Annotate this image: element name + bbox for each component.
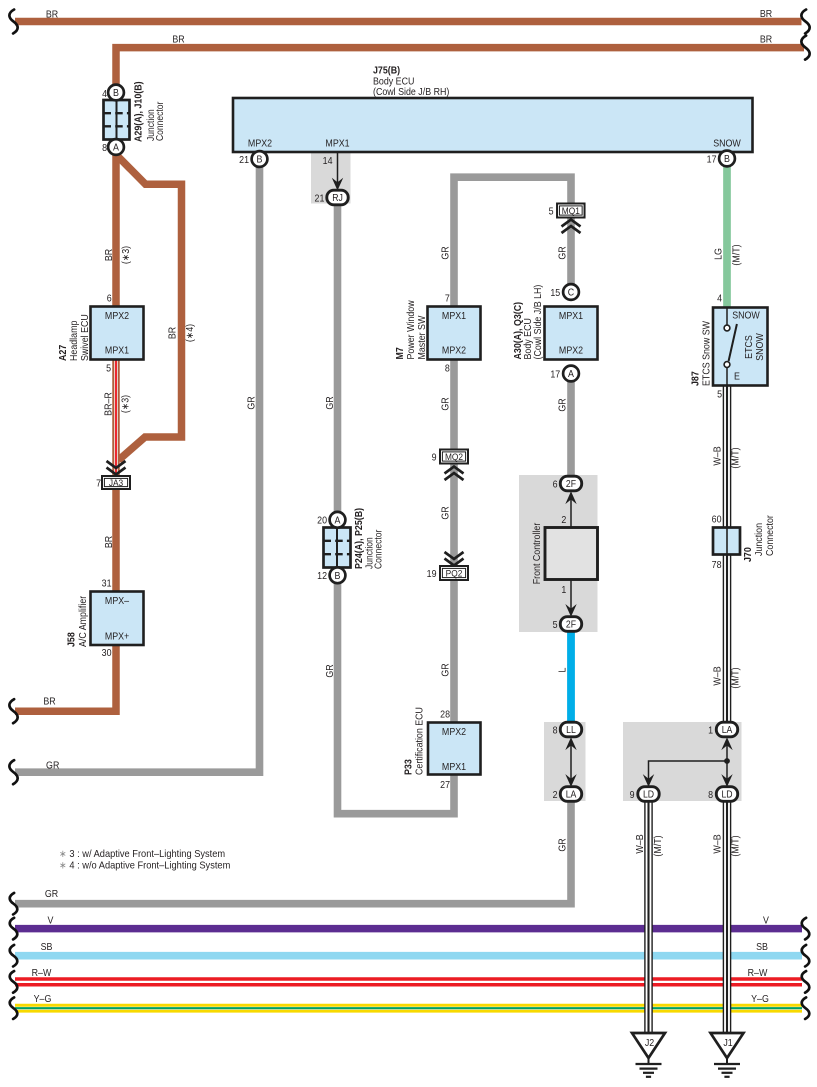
break symbol left of BR bottom <box>9 699 17 723</box>
pin 2F(5) <box>560 617 581 632</box>
thin line J75 pin 14 to RJ with arrow <box>337 152 339 186</box>
svg-text:GR: GR <box>324 664 336 677</box>
switch contact top <box>726 308 728 326</box>
svg-text:MPX–: MPX– <box>105 595 130 607</box>
wire L from Front Controller 2F(5) to LL <box>567 631 575 724</box>
svg-text:30: 30 <box>102 647 112 659</box>
ECU box J75(B) Body ECU <box>233 98 753 152</box>
svg-text:LA: LA <box>566 789 577 800</box>
svg-text:5: 5 <box>717 389 722 401</box>
pin LA(2) <box>560 787 581 802</box>
ECU box M7 Power Window Master SW <box>428 307 481 360</box>
break symbol left of BR bus <box>9 10 17 34</box>
svg-text:MPX2: MPX2 <box>248 138 272 150</box>
svg-text:A: A <box>568 369 574 381</box>
shaded area RJ connector region <box>311 153 351 204</box>
svg-text:4: 4 <box>717 293 723 305</box>
pin A(17) of A30 <box>563 366 579 382</box>
arrow into RJ <box>332 178 343 191</box>
wire BR-R from A27 pin 5 to JA3 <box>112 360 120 477</box>
svg-text:A/C Amplifier: A/C Amplifier <box>77 595 89 647</box>
svg-text:17: 17 <box>707 154 717 166</box>
svg-text:J2: J2 <box>645 1037 654 1049</box>
svg-text:Certification ECU: Certification ECU <box>414 707 426 775</box>
wire W-B from J87 pin 5 to J70 pin 60 <box>723 386 732 528</box>
ECU box J87 ETCS Snow SW <box>713 308 768 386</box>
relay block MQ1 <box>557 204 585 218</box>
thin line LL to LA <box>570 743 572 781</box>
svg-text:Connector: Connector <box>154 102 165 141</box>
junction connector A29(A) J10(B) grid <box>104 100 130 140</box>
svg-text:Swivel ECU: Swivel ECU <box>79 314 91 361</box>
svg-text:W–B: W–B <box>634 834 646 853</box>
svg-text:60: 60 <box>712 514 722 526</box>
wire LG from J75 SNOW pin 17 to J87 pin 4 <box>723 166 731 308</box>
pin LD(9) <box>638 787 659 802</box>
svg-text:ETCS Snow SW: ETCS Snow SW <box>701 321 713 386</box>
svg-text:BR: BR <box>103 536 115 548</box>
break V right <box>802 918 810 940</box>
svg-text:LD: LD <box>643 789 654 800</box>
svg-text:GR: GR <box>557 398 569 411</box>
break symbol right of BR feed <box>801 36 809 60</box>
svg-text:1: 1 <box>708 725 713 737</box>
svg-text:Connector: Connector <box>373 530 384 569</box>
relay block MQ2 <box>440 450 468 464</box>
wire GR loop M7 pin 7 to MQ1 and A30 pin C <box>454 177 571 306</box>
svg-text:L: L <box>557 668 569 673</box>
pin B(4) of A29 <box>108 85 124 101</box>
ground J1 <box>711 1033 744 1058</box>
pin B(12) of P24 <box>330 567 346 583</box>
svg-text:R–W: R–W <box>32 967 52 979</box>
svg-text:BR–R: BR–R <box>103 392 115 416</box>
wire BR from J58 pin 30 to left break <box>15 645 116 712</box>
svg-text:J1: J1 <box>723 1037 732 1049</box>
svg-text:B: B <box>724 154 730 166</box>
svg-text:4: 4 <box>102 88 108 100</box>
svg-text:Y–G: Y–G <box>34 993 52 1005</box>
thin line node to LD(8) <box>726 761 728 781</box>
svg-text:(∗3): (∗3) <box>120 246 132 264</box>
svg-text:B: B <box>257 154 263 166</box>
arrow down into LA(2) <box>565 774 576 787</box>
wire W-B from LD(8) to ground J1 <box>723 801 732 1034</box>
pin LL(8) <box>560 722 581 737</box>
svg-text:A27: A27 <box>57 345 69 361</box>
svg-text:(∗3): (∗3) <box>120 395 132 413</box>
junction node dot <box>724 758 730 764</box>
break SB left <box>10 945 18 967</box>
break symbol right of BR bus <box>801 10 809 34</box>
wire GR from RJ to P24 pin A <box>334 205 342 515</box>
svg-text:2F: 2F <box>566 478 576 489</box>
svg-text:MPX2: MPX2 <box>105 310 129 322</box>
wire GR from LA(2) to bottom GR bus and left break <box>15 801 571 904</box>
svg-text:27: 27 <box>440 779 450 791</box>
pin A(20) of P24 <box>330 512 346 528</box>
svg-text:GR: GR <box>440 663 452 676</box>
wire GR from J75 pin B21 to left break <box>15 167 260 773</box>
svg-text:SB: SB <box>756 941 768 953</box>
svg-text:14: 14 <box>323 155 333 167</box>
switch contact bottom <box>724 362 730 368</box>
pin LD(8) <box>716 787 737 802</box>
junction connector J70 <box>713 528 740 555</box>
svg-text:78: 78 <box>712 559 722 571</box>
svg-text:20: 20 <box>317 515 327 527</box>
svg-text:MPX1: MPX1 <box>105 345 129 357</box>
svg-text:RJ: RJ <box>332 192 343 203</box>
svg-text:MPX2: MPX2 <box>559 345 583 357</box>
svg-text:SB: SB <box>41 941 53 953</box>
svg-text:∗ 3 : w/ Adaptive Front–Lighti: ∗ 3 : w/ Adaptive Front–Lighting System <box>59 849 225 861</box>
break symbol left of GR bus <box>10 893 18 915</box>
svg-text:J87: J87 <box>690 371 702 386</box>
svg-text:GR: GR <box>45 888 58 900</box>
pin 2F(6) <box>560 476 581 491</box>
svg-text:M7: M7 <box>394 347 406 359</box>
arrow up into LA(1) <box>721 737 732 750</box>
pin B(17) under J75 SNOW <box>719 151 735 167</box>
svg-text:B: B <box>113 88 119 100</box>
svg-text:GR: GR <box>557 246 569 259</box>
svg-text:19: 19 <box>427 568 437 580</box>
pin C(15) of A30 <box>563 284 579 300</box>
wire GR from M7 pin 8 through MQ2 PQ2 to P33 pin 28 <box>450 360 458 723</box>
break Y-G right <box>802 997 810 1019</box>
svg-text:(M/T): (M/T) <box>730 667 742 688</box>
thin line LA(1) to junction node <box>726 743 728 761</box>
wire BR from JA3 to J58 pin 31 <box>112 489 120 593</box>
svg-text:P33: P33 <box>403 759 415 775</box>
svg-text:(M/T): (M/T) <box>731 244 743 265</box>
shaded area LA-LD connector group <box>623 722 742 801</box>
break Y-G left <box>10 997 18 1019</box>
wire SB bus <box>15 952 802 960</box>
break R-W right <box>802 971 810 993</box>
svg-text:SNOW: SNOW <box>754 333 766 361</box>
pin B(21) under J75 MPX2 <box>252 151 268 167</box>
svg-text:7: 7 <box>96 478 101 490</box>
svg-text:BR: BR <box>760 8 772 20</box>
svg-text:31: 31 <box>102 578 112 590</box>
break SB right <box>802 945 810 967</box>
wire Y-G bus <box>15 1004 802 1013</box>
svg-text:LD: LD <box>721 789 732 800</box>
svg-text:(M/T): (M/T) <box>730 447 742 468</box>
svg-text:(Cowl Side J/B RH): (Cowl Side J/B RH) <box>373 86 449 98</box>
wire R-W bus <box>15 977 802 986</box>
svg-text:V: V <box>763 915 769 927</box>
svg-text:5: 5 <box>549 206 554 218</box>
wire GR from P24 pin B to P33 pin 27 <box>338 584 455 814</box>
svg-text:LA: LA <box>722 724 733 735</box>
chevron arrow into JA3 <box>107 461 126 475</box>
svg-text:MQ1: MQ1 <box>562 205 580 216</box>
svg-text:1: 1 <box>561 584 566 596</box>
wire BR main bus top <box>15 18 802 26</box>
svg-text:LG: LG <box>713 248 725 260</box>
svg-text:5: 5 <box>553 619 558 631</box>
wire BR from A29 pin A to A27 pin 6 <box>112 154 120 307</box>
svg-text:MPX+: MPX+ <box>105 631 130 643</box>
break V left <box>10 918 18 940</box>
wire BR branch (*4) bypassing A27 <box>117 156 182 461</box>
svg-text:(M/T): (M/T) <box>652 835 664 856</box>
svg-text:(∗4): (∗4) <box>184 324 196 342</box>
svg-text:BR: BR <box>760 34 772 46</box>
svg-text:SNOW: SNOW <box>732 310 760 322</box>
relay block PQ2 <box>440 566 468 580</box>
wire BR second feed to A29 <box>116 48 804 86</box>
arrow down into LD(8) <box>721 774 732 787</box>
svg-text:2: 2 <box>561 514 566 526</box>
svg-text:(Cowl Side J/B LH): (Cowl Side J/B LH) <box>532 285 544 360</box>
svg-text:8: 8 <box>445 363 450 375</box>
svg-text:SNOW: SNOW <box>713 138 741 150</box>
svg-text:Power Window: Power Window <box>405 300 417 359</box>
ECU box P33 Certification ECU <box>428 723 481 775</box>
svg-text:BR: BR <box>167 327 179 339</box>
break symbol left of GR <box>9 760 17 784</box>
svg-text:Headlamp: Headlamp <box>68 321 80 361</box>
svg-text:2F: 2F <box>566 619 576 630</box>
junction connector P24(A) P25(B) grid <box>324 528 351 568</box>
svg-text:8: 8 <box>708 789 713 801</box>
svg-text:JA3: JA3 <box>109 477 123 488</box>
thin line 2F(6) to Front Controller pin 2 <box>570 498 572 528</box>
ECU box J58 A/C Amplifier <box>91 592 144 646</box>
svg-text:9: 9 <box>432 452 437 464</box>
pin RJ(21) <box>327 190 348 205</box>
thin line Front Controller pin 1 to 2F(5) <box>570 579 572 611</box>
svg-text:GR: GR <box>440 246 452 259</box>
svg-text:E: E <box>734 371 740 383</box>
svg-text:MPX1: MPX1 <box>442 310 466 322</box>
svg-text:8: 8 <box>553 725 558 737</box>
ground J2 <box>632 1033 665 1058</box>
wire W-B from J70 pin 78 to LA(1) <box>723 554 732 723</box>
svg-text:2: 2 <box>553 789 558 801</box>
svg-text:MPX1: MPX1 <box>559 310 583 322</box>
svg-text:BR: BR <box>172 34 184 46</box>
svg-text:Junction: Junction <box>753 523 765 556</box>
thin line node to LD(9) branch <box>649 761 728 781</box>
wire V bus <box>15 925 802 933</box>
svg-text:PQ2: PQ2 <box>446 568 463 579</box>
svg-text:15: 15 <box>550 287 560 299</box>
svg-text:Connector: Connector <box>764 514 776 556</box>
svg-text:Front Controller: Front Controller <box>532 522 544 584</box>
svg-text:Y–G: Y–G <box>751 993 769 1005</box>
wire W-B from LD(9) to ground J2 <box>644 801 653 1034</box>
arrow down into LD(9) <box>643 774 654 787</box>
svg-text:A: A <box>113 142 119 154</box>
svg-text:BR: BR <box>46 9 58 21</box>
svg-text:MPX1: MPX1 <box>325 138 349 150</box>
svg-text:BR: BR <box>43 696 55 708</box>
relay block JA3 <box>102 476 130 489</box>
svg-text:C: C <box>568 287 574 299</box>
svg-text:BR: BR <box>103 249 115 261</box>
svg-text:ETCS: ETCS <box>743 335 755 359</box>
svg-text:8: 8 <box>102 142 107 154</box>
svg-text:W–B: W–B <box>712 834 724 853</box>
svg-text:GR: GR <box>324 396 336 409</box>
svg-text:6: 6 <box>107 293 112 305</box>
shaded area LL-LA connector pair <box>544 722 586 801</box>
svg-text:∗ 4 : w/o Adaptive Front–Light: ∗ 4 : w/o Adaptive Front–Lighting System <box>59 860 230 872</box>
chevron up into MQ1 <box>562 220 581 234</box>
svg-text:(M/T): (M/T) <box>730 835 742 856</box>
svg-text:MPX2: MPX2 <box>442 345 466 357</box>
svg-text:GR: GR <box>440 397 452 410</box>
svg-text:A29(A), J10(B): A29(A), J10(B) <box>133 81 145 142</box>
svg-text:MPX1: MPX1 <box>442 761 466 773</box>
svg-text:W–B: W–B <box>712 666 724 685</box>
svg-text:MPX2: MPX2 <box>442 726 466 738</box>
pin LA(1) <box>716 722 737 737</box>
svg-text:9: 9 <box>630 789 635 801</box>
chevron up into MQ2 <box>445 467 464 481</box>
svg-text:LL: LL <box>566 724 576 735</box>
svg-text:28: 28 <box>440 709 450 721</box>
shaded area Front Controller <box>519 475 598 632</box>
svg-text:B: B <box>335 570 341 582</box>
svg-text:12: 12 <box>317 571 327 583</box>
svg-text:GR: GR <box>557 838 569 851</box>
svg-text:V: V <box>48 915 54 927</box>
svg-text:GR: GR <box>246 396 258 409</box>
svg-text:Master SW: Master SW <box>416 316 428 360</box>
svg-text:MQ2: MQ2 <box>445 451 463 462</box>
wire GR from A30 pin A to Front Controller 2F <box>567 381 575 478</box>
break R-W left <box>10 971 18 993</box>
svg-text:GR: GR <box>440 506 452 519</box>
svg-text:A: A <box>335 515 341 527</box>
arrow up into 2F(6) <box>565 491 576 504</box>
svg-text:J58: J58 <box>66 632 78 647</box>
svg-text:5: 5 <box>106 363 111 375</box>
Front Controller box <box>545 528 598 580</box>
svg-text:21: 21 <box>315 193 325 205</box>
svg-text:J70: J70 <box>742 547 754 562</box>
svg-text:W–B: W–B <box>712 446 724 465</box>
switch blade <box>729 324 737 361</box>
svg-text:J75(B): J75(B) <box>373 65 400 77</box>
ECU box A30(A) Q3(C) Body ECU <box>545 307 598 360</box>
svg-text:17: 17 <box>550 369 560 381</box>
pin A(8) of A29 <box>108 139 124 155</box>
svg-text:GR: GR <box>46 760 59 772</box>
arrow down into 2F(5) <box>565 604 576 617</box>
svg-text:R–W: R–W <box>748 967 768 979</box>
svg-text:6: 6 <box>553 479 558 491</box>
svg-text:21: 21 <box>239 154 249 166</box>
ECU box A27 Headlamp Swivel ECU <box>91 307 144 360</box>
chevron down into PQ2 <box>445 552 464 566</box>
arrow up into LL <box>565 737 576 750</box>
svg-text:7: 7 <box>445 293 450 305</box>
